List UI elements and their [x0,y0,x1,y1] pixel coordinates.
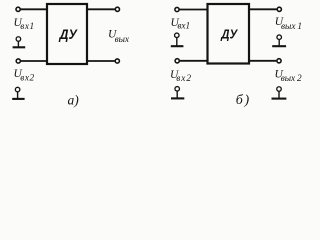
caption б) [236,93,251,108]
svg-text:вх2: вх2 [176,74,192,84]
wire output top (a) [87,8,115,10]
label Uвх2 (a) [14,68,35,83]
wire input 1 to block (a) [21,8,48,10]
svg-text:вх1: вх1 [177,22,190,32]
wire input 2 to block (b) [180,60,208,62]
svg-text:ДУ: ДУ [220,27,238,42]
label Uвх2 (b) [170,69,192,84]
label Uвых (a) [108,29,130,46]
ground terminal under Uвх1 (a) [13,37,26,48]
wire output bottom (a) [87,60,115,62]
amplifier block ДУ (diagram b) [208,4,250,64]
input terminal circle Uвх2 (b) [175,59,179,63]
wire input 1 to block (b) [179,9,207,11]
ground terminal under Uвх2 (a) [12,87,24,99]
amplifier block ДУ (diagram a) [47,4,87,64]
wire output 2 (b) [249,60,276,62]
caption а) [68,93,80,108]
input terminal circle Uвх2 (a) [16,59,20,63]
ground terminal under Uвх2 (b) [171,87,184,99]
ground terminal under Uвых1 (b) [272,35,286,46]
wire input 2 to block (a) [21,60,47,62]
label Uвых1 (b) [275,16,302,32]
svg-text:а): а) [68,93,80,108]
wire output 1 (b) [249,8,277,10]
output terminal circle Uвых2 (b) [277,59,281,63]
svg-text:вх1: вх1 [20,22,34,32]
ground terminal under Uвых2 (b) [272,87,287,99]
svg-text:вых 2: вых 2 [281,74,302,84]
label Uвх1 (a) [14,17,35,32]
input terminal circle Uвх1 (a) [16,7,20,11]
label ДУ (diagram a) [59,27,78,42]
output terminal circle Uвых1 (b) [277,7,281,11]
label Uвх1 (b) [171,17,191,32]
output terminal circle top (a) [115,7,119,11]
svg-text:б): б) [236,93,251,108]
label Uвых2 (b) [275,69,303,85]
svg-text:вх2: вх2 [20,73,34,83]
svg-text:вых 1: вых 1 [281,22,302,32]
output terminal circle bottom (a) [115,59,119,63]
svg-text:ДУ: ДУ [59,27,78,42]
svg-text:вых: вых [115,35,130,45]
label ДУ (diagram b) [220,27,238,42]
input terminal circle Uвх1 (b) [175,7,179,11]
ground terminal under Uвх1 (b) [171,33,184,46]
